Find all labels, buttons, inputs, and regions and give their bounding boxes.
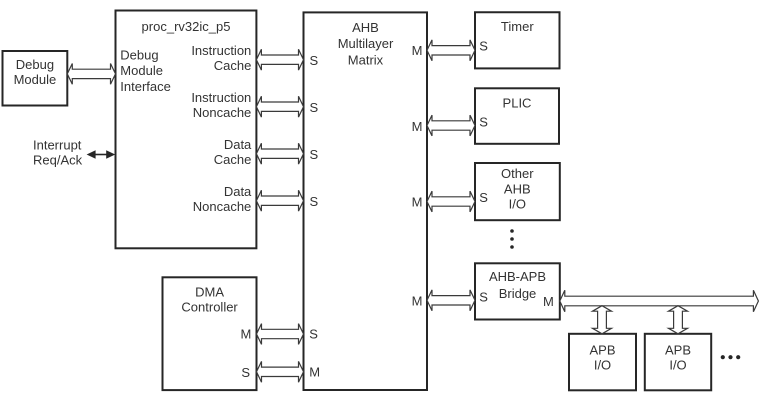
svg-text:Module: Module (120, 63, 163, 78)
svg-text:M: M (543, 294, 554, 309)
svg-text:Bridge: Bridge (499, 286, 537, 301)
svg-text:proc_rv32ic_p5: proc_rv32ic_p5 (142, 19, 231, 34)
svg-text:S: S (310, 147, 319, 162)
svg-text:M: M (412, 294, 423, 309)
svg-text:Data: Data (224, 184, 252, 199)
svg-text:Multilayer: Multilayer (338, 36, 394, 51)
svg-text:APB: APB (665, 342, 691, 357)
svg-text:S: S (479, 114, 488, 129)
svg-text:M: M (412, 43, 423, 58)
svg-text:Controller: Controller (181, 300, 238, 315)
svg-text:I/O: I/O (594, 357, 611, 372)
svg-text:Interface: Interface (120, 79, 171, 94)
svg-text:AHB-APB: AHB-APB (489, 269, 546, 284)
svg-text:Debug: Debug (16, 57, 54, 72)
svg-text:AHB: AHB (504, 181, 531, 196)
svg-text:S: S (310, 100, 319, 115)
svg-text:S: S (309, 326, 318, 341)
svg-text:Noncache: Noncache (193, 105, 252, 120)
svg-text:I/O: I/O (509, 197, 526, 212)
svg-text:I/O: I/O (669, 357, 686, 372)
svg-text:Noncache: Noncache (193, 199, 252, 214)
svg-text:M: M (412, 194, 423, 209)
svg-text:Other: Other (501, 166, 534, 181)
svg-text:Data: Data (224, 137, 252, 152)
svg-text:Instruction: Instruction (191, 43, 251, 58)
svg-text:PLIC: PLIC (503, 95, 532, 110)
svg-text:M: M (241, 326, 252, 341)
svg-text:Matrix: Matrix (348, 52, 384, 67)
svg-text:M: M (412, 119, 423, 134)
svg-text:Module: Module (14, 72, 57, 87)
svg-text:DMA: DMA (195, 284, 224, 299)
svg-text:Interrupt: Interrupt (33, 137, 82, 152)
svg-text:Timer: Timer (501, 19, 534, 34)
svg-text:Req/Ack: Req/Ack (33, 153, 83, 168)
svg-text:M: M (309, 365, 320, 380)
svg-text:Cache: Cache (214, 152, 252, 167)
svg-text:Debug: Debug (120, 47, 158, 62)
svg-text:AHB: AHB (352, 20, 379, 35)
svg-text:S: S (479, 190, 488, 205)
svg-text:S: S (241, 365, 250, 380)
svg-text:S: S (310, 53, 319, 68)
svg-text:S: S (479, 289, 488, 304)
svg-text:Cache: Cache (214, 58, 252, 73)
svg-text:S: S (310, 194, 319, 209)
svg-text:APB: APB (589, 342, 615, 357)
svg-text:Instruction: Instruction (191, 90, 251, 105)
svg-text:S: S (479, 39, 488, 54)
